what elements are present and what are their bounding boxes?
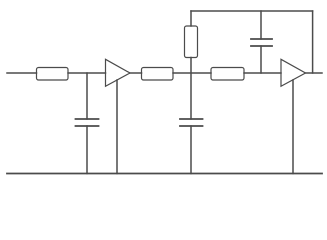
resistor R1: [37, 68, 69, 81]
op-amp U2: [281, 59, 306, 86]
wire R4 to U2: [244, 72, 281, 74]
wire node A vertical: [190, 58, 192, 120]
wire R1 to U1: [68, 72, 106, 74]
resistor R4: [211, 68, 244, 81]
wire U1 ground leg: [116, 80, 118, 174]
wire feedback vertical: [312, 11, 314, 73]
capacitor C2: [180, 119, 203, 174]
op-amp U1: [106, 59, 131, 86]
wire input: [7, 72, 37, 74]
capacitor C1: [76, 73, 99, 174]
resistor R2: [142, 68, 174, 81]
wire feedback top rail: [191, 10, 313, 12]
wire U1 out to R2: [130, 72, 142, 74]
wire U2 ground leg: [292, 80, 294, 174]
resistor R3: [185, 26, 198, 58]
wire ground rail: [7, 173, 322, 175]
wire U2 output: [306, 72, 323, 74]
wire R2 to R4: [173, 72, 211, 74]
capacitor C3: [251, 11, 272, 73]
wire R3 top to rail: [190, 11, 192, 26]
